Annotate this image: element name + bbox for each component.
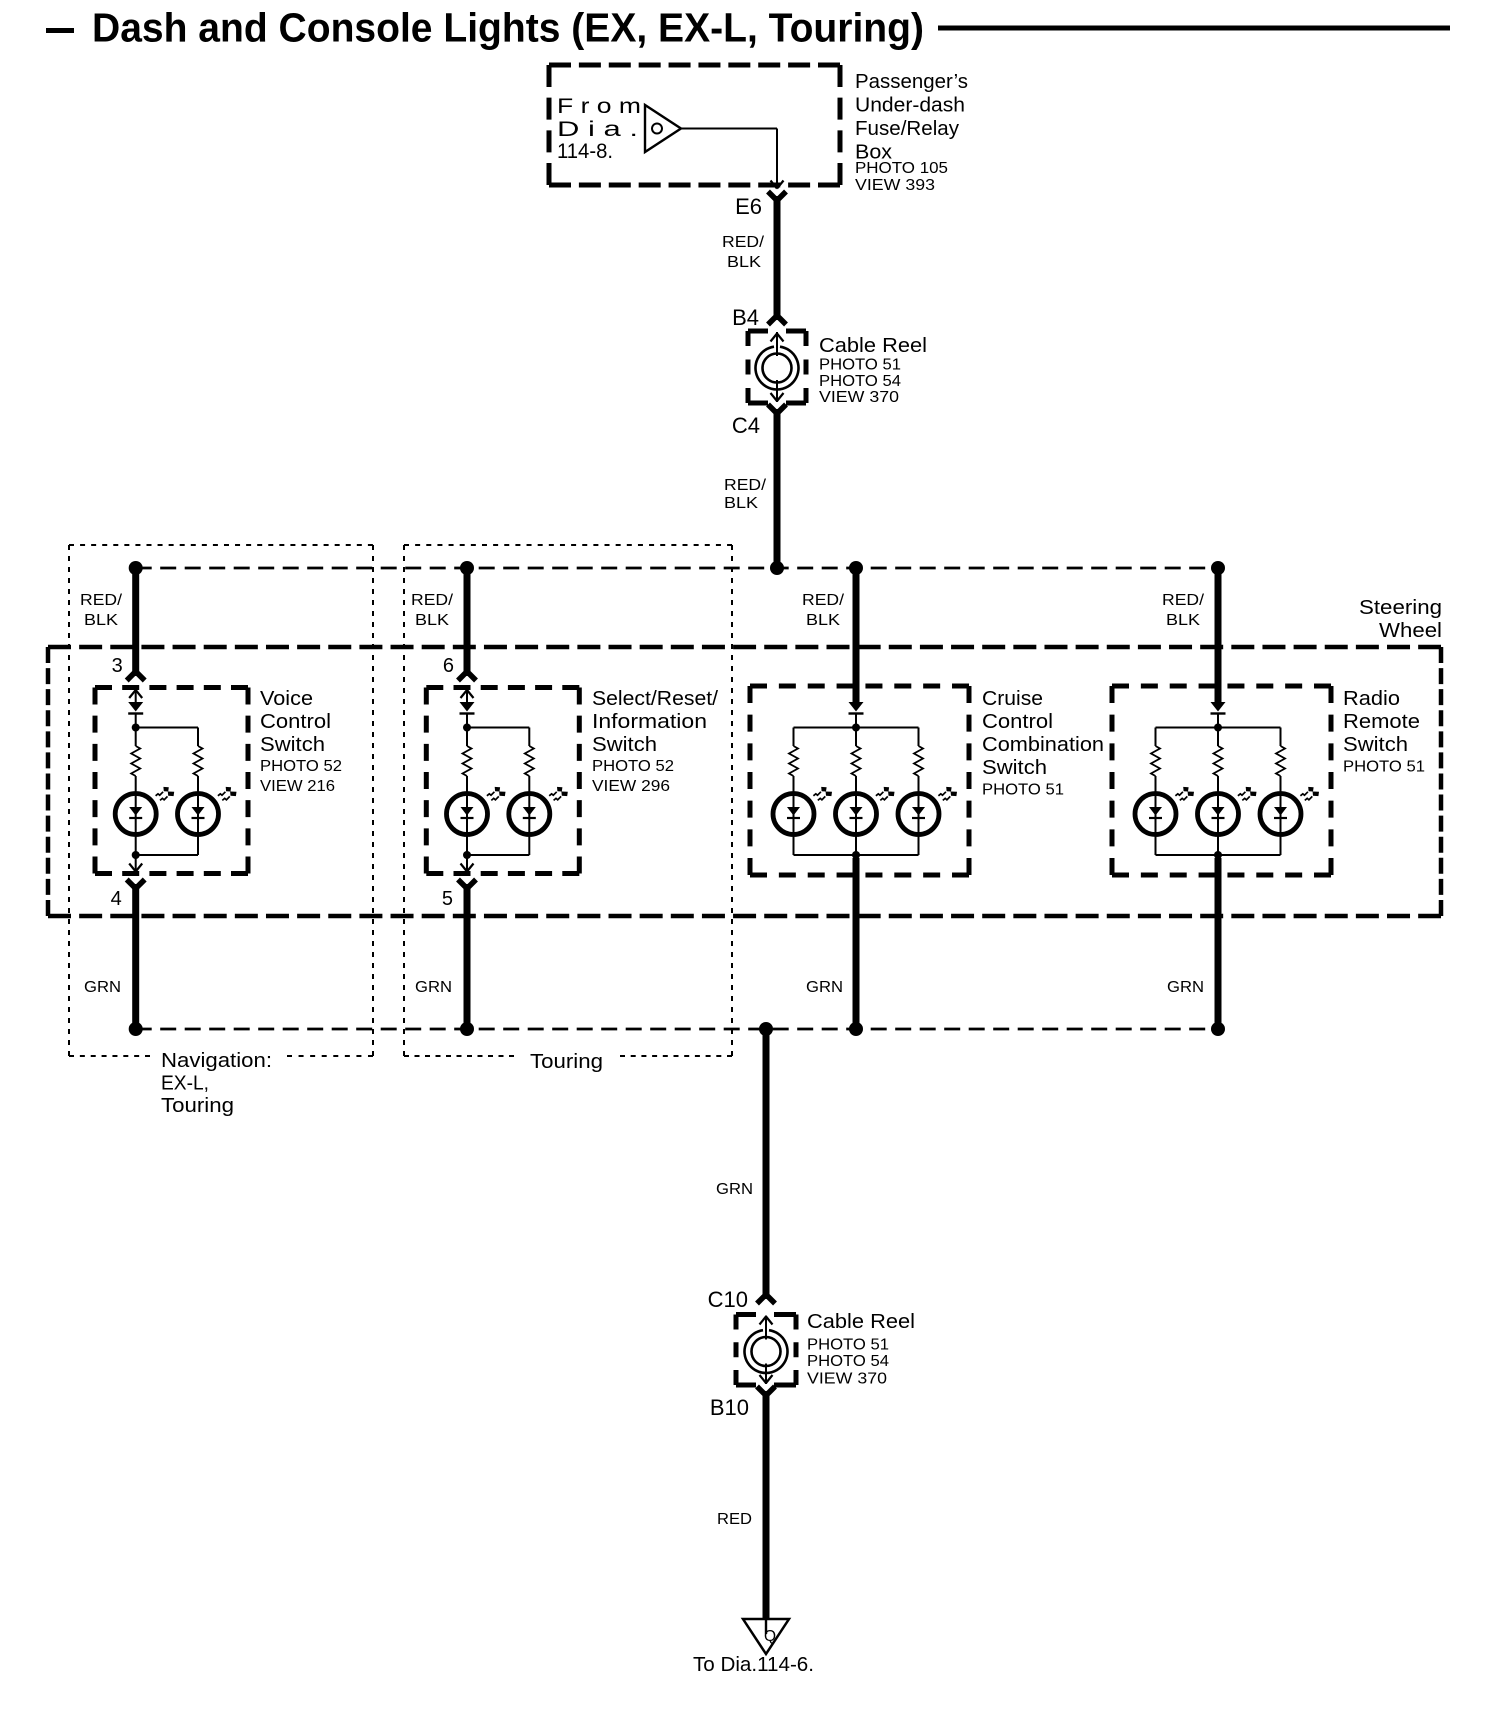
svg-text:Fuse/Relay: Fuse/Relay: [855, 117, 960, 140]
svg-text:Cruise: Cruise: [982, 688, 1043, 710]
svg-text:114-8.: 114-8.: [557, 140, 613, 163]
svg-text:VIEW 370: VIEW 370: [807, 1371, 887, 1388]
svg-text:Switch: Switch: [260, 734, 325, 756]
svg-text:BLK: BLK: [84, 612, 118, 629]
svg-text:Switch: Switch: [592, 734, 657, 756]
svg-text:PHOTO 51: PHOTO 51: [807, 1337, 889, 1354]
svg-text:VIEW 370: VIEW 370: [819, 389, 899, 406]
svg-text:4: 4: [111, 888, 122, 910]
svg-text:BLK: BLK: [1166, 612, 1200, 629]
svg-text:Wheel: Wheel: [1379, 620, 1442, 642]
svg-text:Information: Information: [592, 711, 707, 733]
svg-text:Control: Control: [260, 711, 331, 733]
svg-text:D i a .: D i a .: [557, 118, 638, 141]
svg-text:B10: B10: [710, 1395, 749, 1420]
svg-text:GRN: GRN: [716, 1181, 753, 1198]
svg-text:VIEW 216: VIEW 216: [260, 778, 335, 795]
svg-text:C10: C10: [708, 1287, 748, 1312]
svg-text:PHOTO 52: PHOTO 52: [592, 758, 674, 775]
svg-text:Touring: Touring: [530, 1051, 603, 1073]
svg-text:RED/: RED/: [724, 477, 767, 494]
svg-text:VIEW 393: VIEW 393: [855, 177, 935, 194]
svg-text:PHOTO 51: PHOTO 51: [819, 357, 901, 374]
svg-text:Voice: Voice: [260, 688, 313, 710]
svg-text:RED/: RED/: [80, 592, 123, 609]
svg-text:GRN: GRN: [806, 979, 843, 996]
svg-text:C4: C4: [732, 413, 760, 438]
svg-text:GRN: GRN: [415, 979, 452, 996]
svg-text:Q: Q: [764, 1628, 776, 1645]
svg-text:Passenger’s: Passenger’s: [855, 70, 968, 93]
svg-text:RED/: RED/: [802, 592, 845, 609]
svg-text:Under-dash: Under-dash: [855, 94, 965, 117]
svg-text:Radio: Radio: [1343, 688, 1400, 710]
svg-text:F r o m: F r o m: [557, 95, 641, 118]
svg-text:5: 5: [442, 888, 453, 910]
svg-text:PHOTO 51: PHOTO 51: [982, 782, 1064, 799]
svg-text:Switch: Switch: [982, 757, 1047, 779]
svg-text:RED/: RED/: [722, 234, 765, 251]
svg-text:PHOTO 105: PHOTO 105: [855, 160, 948, 177]
svg-text:BLK: BLK: [806, 612, 840, 629]
svg-text:PHOTO 54: PHOTO 54: [819, 373, 901, 390]
svg-text:Steering: Steering: [1359, 597, 1442, 619]
svg-text:PHOTO 51: PHOTO 51: [1343, 759, 1425, 776]
svg-text:PHOTO 52: PHOTO 52: [260, 758, 342, 775]
svg-text:Cable Reel: Cable Reel: [807, 1311, 915, 1333]
svg-text:Control: Control: [982, 711, 1053, 733]
svg-text:Remote: Remote: [1343, 711, 1420, 733]
svg-text:GRN: GRN: [1167, 979, 1204, 996]
svg-text:B4: B4: [732, 305, 759, 330]
svg-text:RED: RED: [717, 1511, 752, 1528]
svg-text:VIEW 296: VIEW 296: [592, 778, 670, 795]
svg-text:GRN: GRN: [84, 979, 121, 996]
svg-text:E6: E6: [735, 194, 762, 219]
svg-text:Combination: Combination: [982, 734, 1104, 756]
svg-text:Navigation:: Navigation:: [161, 1050, 272, 1072]
svg-text:3: 3: [112, 655, 123, 677]
svg-text:BLK: BLK: [727, 254, 761, 271]
svg-text:To Dia.114-6.: To Dia.114-6.: [693, 1654, 814, 1676]
svg-text:BLK: BLK: [724, 495, 758, 512]
svg-text:PHOTO 54: PHOTO 54: [807, 1353, 889, 1370]
svg-text:Select/Reset/: Select/Reset/: [592, 688, 718, 710]
svg-text:Touring: Touring: [161, 1095, 234, 1117]
svg-text:RED/: RED/: [411, 592, 454, 609]
svg-text:6: 6: [443, 655, 454, 677]
svg-text:EX-L,: EX-L,: [161, 1073, 209, 1095]
svg-text:Dash and Console Lights (EX, E: Dash and Console Lights (EX, EX-L, Touri…: [92, 5, 924, 51]
svg-text:Switch: Switch: [1343, 734, 1408, 756]
svg-text:Cable Reel: Cable Reel: [819, 335, 927, 357]
svg-text:BLK: BLK: [415, 612, 449, 629]
svg-text:RED/: RED/: [1162, 592, 1205, 609]
